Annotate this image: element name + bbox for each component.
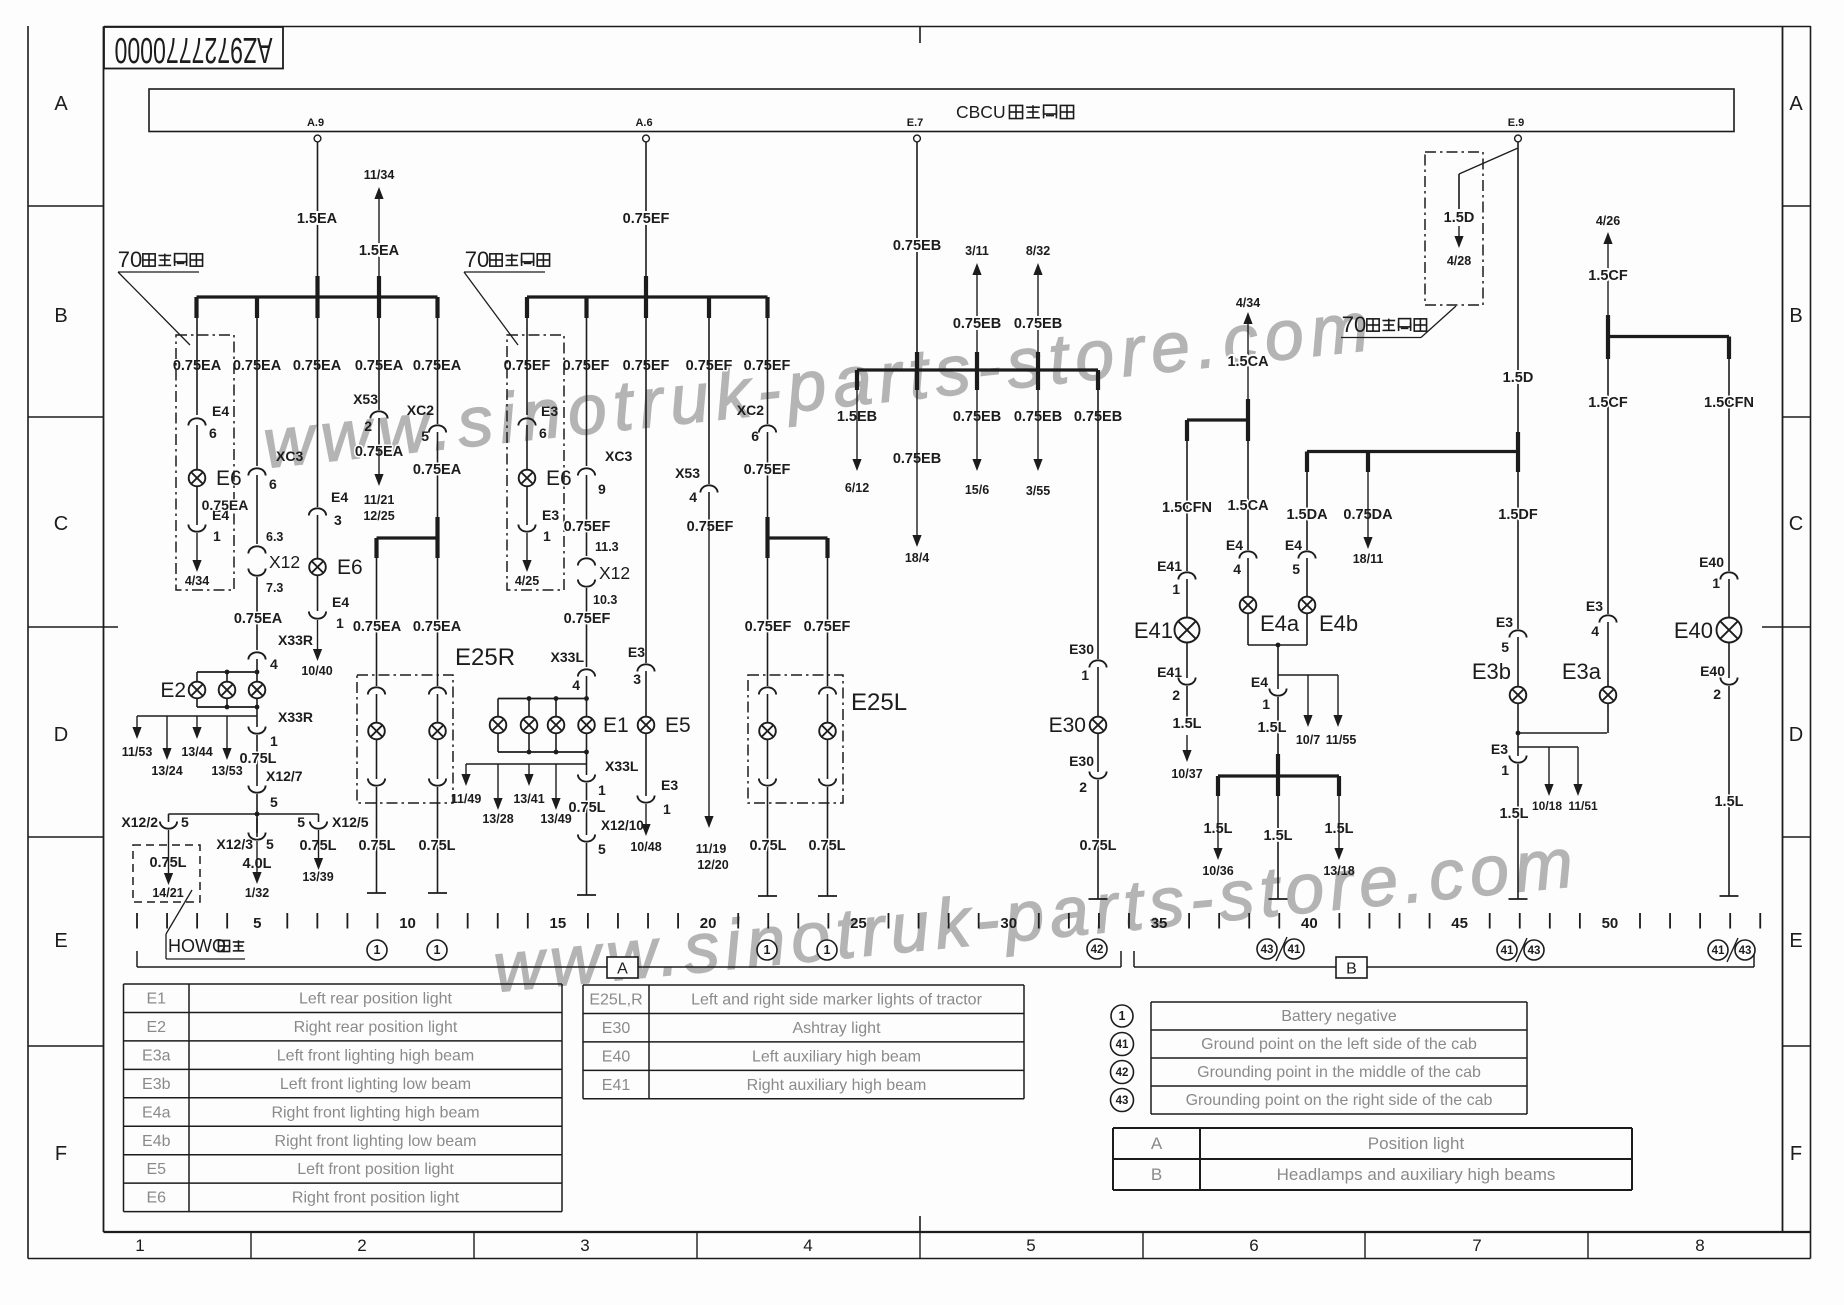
connector XC3 pin 6: [248, 468, 265, 475]
svg-text:1: 1: [1501, 762, 1509, 778]
svg-text:E30: E30: [602, 1020, 631, 1037]
svg-text:1: 1: [1081, 667, 1089, 683]
svg-text:1.5EA: 1.5EA: [359, 243, 400, 259]
svg-text:11/21: 11/21: [364, 493, 395, 507]
svg-text:E5: E5: [665, 714, 691, 737]
svg-text:A.6: A.6: [635, 117, 652, 129]
svg-text:0.75L: 0.75L: [1079, 838, 1116, 854]
connector X33R pin 4: [248, 652, 265, 659]
svg-text:5: 5: [421, 428, 429, 444]
wire 0.75EF from A.6: [645, 142, 647, 276]
svg-text:11/51: 11/51: [1568, 799, 1598, 813]
wire drop3 x317 E6 lamp: [317, 318, 319, 507]
wire 0.75EB from E.7: [916, 142, 918, 352]
svg-text:1.5D: 1.5D: [1503, 370, 1534, 386]
svg-text:1: 1: [663, 801, 671, 817]
svg-text:6: 6: [1249, 1236, 1258, 1255]
dashed box HOWO: [133, 845, 200, 902]
branch into mine-truck dashed box: [1459, 148, 1518, 174]
svg-text:5: 5: [266, 836, 274, 852]
svg-text:11/55: 11/55: [1326, 733, 1357, 747]
svg-text:X33R: X33R: [278, 632, 313, 648]
svg-text:1: 1: [336, 615, 344, 631]
bottom column strip: [250, 1232, 252, 1259]
svg-text:Grounding point in the middle: Grounding point in the middle of the cab: [1197, 1064, 1481, 1081]
connector E30 pin 2: [1089, 772, 1106, 779]
svg-text:6: 6: [539, 425, 547, 441]
svg-text:0.75EA: 0.75EA: [413, 619, 462, 635]
svg-text:E: E: [54, 930, 67, 952]
wire 1.5CA down (E4a): [1247, 441, 1249, 550]
svg-text:20: 20: [700, 915, 717, 932]
svg-text:E: E: [1789, 930, 1802, 952]
svg-text:45: 45: [1451, 915, 1468, 932]
drop 1.5CFN (E40): [1728, 359, 1730, 571]
svg-text:A: A: [617, 961, 628, 978]
drop 1.5DA: [1306, 472, 1308, 550]
connector E30 pin 1: [1089, 660, 1106, 667]
svg-text:C: C: [1789, 513, 1803, 535]
legend: ground symbols: [1151, 1002, 1527, 1114]
lamp group E2 (right rear position light): [197, 671, 257, 673]
connector X12/5 pin 5: [318, 814, 320, 822]
svg-text:5: 5: [1026, 1236, 1035, 1255]
svg-text:1: 1: [374, 943, 381, 957]
bus to E25R: [435, 517, 439, 558]
svg-text:Right front lighting high beam: Right front lighting high beam: [271, 1104, 479, 1121]
svg-text:E4b: E4b: [142, 1133, 171, 1150]
pin-number ruler: [136, 913, 138, 929]
svg-text:2: 2: [1172, 687, 1180, 703]
wire drop2 x586: [586, 318, 588, 466]
svg-text:13/39: 13/39: [302, 870, 333, 884]
svg-text:X12: X12: [599, 563, 630, 583]
svg-text:E4: E4: [212, 403, 229, 419]
HOWO axle label: [166, 890, 192, 934]
svg-text:E40: E40: [1699, 554, 1724, 570]
svg-text:50: 50: [1602, 915, 1619, 932]
svg-text:X12: X12: [269, 552, 300, 572]
svg-text:1.5CF: 1.5CF: [1588, 268, 1628, 284]
svg-text:10.3: 10.3: [593, 593, 617, 607]
svg-text:1: 1: [213, 528, 221, 544]
junction line X12 branches: [169, 813, 319, 815]
svg-text:10/7: 10/7: [1296, 733, 1320, 747]
svg-text:E3: E3: [1496, 614, 1513, 630]
svg-text:X53: X53: [353, 391, 378, 407]
svg-text:15: 15: [549, 915, 566, 932]
svg-text:42: 42: [1116, 1067, 1129, 1079]
svg-text:0.75EB: 0.75EB: [1014, 316, 1062, 332]
svg-text:1.5L: 1.5L: [1172, 716, 1201, 732]
lamp E40 (left auxiliary high beam): [1717, 618, 1742, 643]
branch arrows 10/7 11/55: [1278, 674, 1338, 676]
svg-text:4: 4: [270, 656, 278, 672]
svg-text:1: 1: [434, 943, 441, 957]
svg-text:B: B: [1789, 305, 1802, 327]
svg-text:E1: E1: [603, 714, 629, 737]
svg-text:Left and right side marker lig: Left and right side marker lights of tra…: [691, 992, 982, 1009]
svg-text:43: 43: [1116, 1095, 1129, 1107]
svg-text:X12/5: X12/5: [332, 814, 369, 830]
svg-text:15/6: 15/6: [965, 483, 989, 497]
grounds under E25L: [758, 895, 777, 897]
svg-text:1: 1: [824, 943, 831, 957]
junction to E3a: [1518, 732, 1607, 734]
bus EA: [197, 295, 438, 298]
svg-text:11/53: 11/53: [122, 745, 153, 759]
svg-text:A: A: [54, 93, 68, 115]
svg-text:2: 2: [364, 418, 372, 434]
title block AZ9727770000 (rotated 180): [104, 27, 283, 69]
svg-text:0.75EA: 0.75EA: [234, 611, 283, 627]
connector E4 pin 4: [1239, 551, 1256, 558]
middle wire to ground: [1277, 796, 1279, 899]
dash-dot box E6 left (E3 circuit): [507, 335, 564, 590]
svg-text:Ashtray light: Ashtray light: [792, 1020, 881, 1037]
svg-text:4/25: 4/25: [515, 574, 539, 588]
svg-text:F: F: [1790, 1143, 1802, 1165]
svg-text:8: 8: [1695, 1236, 1704, 1255]
svg-text:25: 25: [850, 915, 867, 932]
svg-text:7: 7: [1472, 1236, 1481, 1255]
svg-text:E.9: E.9: [1508, 117, 1525, 129]
svg-text:CBCU: CBCU: [956, 102, 1006, 122]
svg-text:E30: E30: [1069, 753, 1094, 769]
connector E4 pin 1: [1269, 689, 1286, 696]
svg-text:41: 41: [1288, 944, 1301, 956]
svg-text:0.75EF: 0.75EF: [623, 211, 670, 227]
svg-text:30: 30: [1000, 915, 1017, 932]
svg-text:0.75L: 0.75L: [749, 838, 786, 854]
svg-text:41: 41: [1501, 945, 1514, 957]
svg-text:0.75EB: 0.75EB: [953, 316, 1001, 332]
svg-text:6: 6: [751, 428, 759, 444]
lamp E4a (right high beam): [1240, 597, 1257, 614]
connector E3 pin 1: [1517, 733, 1519, 756]
svg-text:E4: E4: [1285, 537, 1302, 553]
svg-text:X12/7: X12/7: [266, 768, 303, 784]
bus D: [1516, 432, 1520, 472]
svg-text:4: 4: [1591, 623, 1599, 639]
svg-text:11/34: 11/34: [364, 168, 395, 182]
svg-text:1.5CA: 1.5CA: [1227, 498, 1269, 514]
branch line with arrows 11/53 13/24 13/44 13/53: [256, 707, 258, 727]
svg-text:1: 1: [270, 733, 278, 749]
svg-text:42: 42: [1091, 944, 1104, 956]
svg-text:18/4: 18/4: [905, 551, 929, 565]
svg-text:1: 1: [135, 1236, 144, 1255]
svg-text:E4b: E4b: [1319, 611, 1358, 636]
CBCU control unit box U1: [149, 89, 1734, 132]
svg-text:Right rear position light: Right rear position light: [294, 1019, 458, 1036]
svg-text:F: F: [55, 1143, 67, 1165]
ground reference bubbles: [367, 940, 387, 960]
svg-text:5: 5: [181, 814, 189, 830]
svg-text:0.75EF: 0.75EF: [687, 519, 734, 535]
svg-text:Ground point on the left side: Ground point on the left side of the cab: [1201, 1036, 1477, 1053]
svg-text:E3a: E3a: [142, 1047, 171, 1064]
svg-text:A: A: [1789, 93, 1803, 115]
svg-text:4/26: 4/26: [1596, 214, 1620, 228]
svg-text:1: 1: [1262, 696, 1270, 712]
bracket A: [136, 951, 138, 967]
svg-text:1.5CA: 1.5CA: [1227, 354, 1269, 370]
bus CA: [1246, 399, 1250, 441]
wire 1.5DF: [1517, 472, 1519, 629]
connector X33L pin 1: [578, 775, 595, 782]
svg-text:1.5L: 1.5L: [1263, 828, 1292, 844]
connector X12/2 pin 5: [168, 814, 170, 822]
svg-text:1.5D: 1.5D: [1444, 210, 1475, 226]
svg-text:B: B: [54, 305, 67, 327]
svg-text:E41: E41: [1157, 664, 1182, 680]
svg-text:D: D: [54, 724, 68, 746]
svg-text:E6: E6: [146, 1190, 166, 1207]
svg-text:E4: E4: [1251, 674, 1268, 690]
svg-text:E41: E41: [1134, 618, 1173, 643]
svg-text:X12/2: X12/2: [121, 814, 158, 830]
svg-text:5: 5: [253, 915, 261, 932]
ground under E30: [1089, 898, 1108, 900]
svg-text:X53: X53: [675, 465, 700, 481]
svg-text:70: 70: [118, 247, 142, 272]
svg-text:13/18: 13/18: [1323, 864, 1354, 878]
svg-text:6: 6: [269, 476, 277, 492]
grounds under E25R: [367, 892, 386, 894]
svg-text:E41: E41: [602, 1077, 631, 1094]
svg-text:X12/3: X12/3: [216, 836, 253, 852]
svg-text:XC3: XC3: [276, 448, 303, 464]
connector E3 pin 1: [526, 486, 528, 525]
svg-text:1.5DA: 1.5DA: [1286, 507, 1328, 523]
svg-text:12/25: 12/25: [363, 509, 394, 523]
svg-text:E.7: E.7: [907, 117, 924, 129]
svg-text:14/21: 14/21: [152, 886, 183, 900]
svg-text:Right front lighting low beam: Right front lighting low beam: [275, 1133, 477, 1150]
svg-text:B: B: [1346, 961, 1357, 978]
connector E4 pin 1: [196, 486, 198, 525]
wire drop5 x767 XC2/6: [767, 318, 769, 424]
svg-text:Left rear position light: Left rear position light: [299, 991, 453, 1008]
svg-text:70: 70: [1342, 312, 1366, 337]
svg-text:E25R: E25R: [455, 644, 515, 671]
svg-text:3/11: 3/11: [965, 244, 989, 258]
svg-text:E4: E4: [1226, 537, 1243, 553]
sheet outer border: [27, 26, 29, 1259]
svg-text:5: 5: [1501, 639, 1509, 655]
svg-text:43: 43: [1739, 945, 1752, 957]
connector E3 pin 6: [518, 418, 535, 425]
connector X12/3 pin 5: [256, 818, 258, 833]
svg-text:1: 1: [598, 782, 606, 798]
svg-text:6: 6: [209, 425, 217, 441]
svg-text:0.75EF: 0.75EF: [564, 611, 611, 627]
svg-text:7.3: 7.3: [266, 581, 283, 595]
lamp E41 (right auxiliary high beam): [1175, 618, 1200, 643]
svg-text:E3: E3: [1491, 741, 1508, 757]
arrow 4/34: [196, 533, 198, 562]
svg-text:E4a: E4a: [142, 1104, 171, 1121]
lamp E6 (left): [526, 425, 528, 470]
svg-text:4: 4: [572, 677, 580, 693]
lamp group E1 (left rear position light): [498, 698, 587, 700]
inner drawing frame: [103, 27, 105, 1233]
svg-text:E40: E40: [1700, 663, 1725, 679]
branch arrows 10/18 11/51: [1518, 746, 1578, 748]
svg-text:E4: E4: [331, 489, 348, 505]
svg-text:3/55: 3/55: [1026, 484, 1050, 498]
svg-text:Right auxiliary high beam: Right auxiliary high beam: [747, 1077, 927, 1094]
drop 1.5CFN (E41): [1186, 441, 1188, 571]
wire drop4 x709 X53/4: [708, 318, 710, 484]
svg-text:1.5EA: 1.5EA: [297, 211, 338, 227]
svg-text:10/18: 10/18: [1532, 799, 1562, 813]
svg-text:E40: E40: [1674, 618, 1713, 643]
bus EB: [857, 368, 1098, 371]
svg-text:E3: E3: [628, 644, 645, 660]
svg-text:E3: E3: [542, 507, 559, 523]
svg-text:4: 4: [803, 1236, 812, 1255]
svg-text:X33L: X33L: [551, 649, 585, 665]
dash-dot box around E6 right (E4 circuit): [176, 335, 234, 590]
svg-text:2: 2: [357, 1236, 366, 1255]
svg-text:1: 1: [543, 528, 551, 544]
lamp E4b wire from 1.5DA: [1298, 551, 1315, 558]
svg-text:4: 4: [689, 489, 697, 505]
svg-text:Battery negative: Battery negative: [1281, 1008, 1397, 1025]
svg-text:0.75EF: 0.75EF: [744, 462, 791, 478]
svg-text:70: 70: [465, 247, 489, 272]
svg-text:E25L,R: E25L,R: [589, 992, 642, 1009]
svg-text:A.9: A.9: [307, 117, 324, 129]
svg-text:5: 5: [1292, 561, 1300, 577]
connector E40 pin 1: [1720, 572, 1737, 579]
svg-text:11/19: 11/19: [696, 842, 727, 856]
svg-text:1.5CF: 1.5CF: [1588, 395, 1628, 411]
svg-text:8/32: 8/32: [1026, 244, 1050, 258]
svg-text:18/11: 18/11: [1353, 552, 1384, 566]
connector E3 pin 4: [1599, 615, 1616, 622]
svg-text:43: 43: [1261, 944, 1274, 956]
svg-text:10/40: 10/40: [301, 664, 332, 678]
svg-text:E40: E40: [602, 1048, 631, 1065]
svg-text:2: 2: [1713, 686, 1721, 702]
wire drop5 x437 XC2/5: [437, 318, 439, 424]
bus to E25L: [765, 517, 769, 558]
centre marks: [919, 27, 921, 44]
svg-text:E25L: E25L: [851, 689, 907, 716]
svg-text:E3a: E3a: [1562, 659, 1602, 684]
lamp E30 (ashtray light): [1090, 717, 1107, 734]
branch arrows 11/49 13/28 13/41 13/49: [586, 752, 588, 775]
svg-text:X33L: X33L: [605, 758, 639, 774]
svg-text:E2: E2: [160, 679, 186, 702]
connector X12/7 pin 5: [248, 786, 265, 793]
svg-text:11.3: 11.3: [595, 540, 619, 554]
svg-text:13/24: 13/24: [151, 764, 182, 778]
svg-text:4: 4: [1233, 561, 1241, 577]
svg-text:1.5L: 1.5L: [1499, 806, 1528, 822]
svg-text:3: 3: [633, 671, 641, 687]
side marker E25L box: [748, 675, 843, 803]
svg-text:13/44: 13/44: [181, 745, 212, 759]
svg-text:13/28: 13/28: [482, 812, 513, 826]
svg-text:5: 5: [598, 841, 606, 857]
svg-text:12/20: 12/20: [697, 858, 728, 872]
svg-text:11/49: 11/49: [451, 792, 482, 806]
svg-text:E3: E3: [541, 403, 558, 419]
svg-text:43: 43: [1528, 945, 1541, 957]
zone row separators and labels: [28, 205, 104, 207]
junction E4 low-beam returns: [1248, 644, 1307, 646]
svg-text:41: 41: [1116, 1039, 1129, 1051]
svg-text:41: 41: [1712, 945, 1725, 957]
svg-text:Left auxiliary high beam: Left auxiliary high beam: [752, 1048, 921, 1065]
connector E41 pin 1: [1178, 572, 1195, 579]
svg-text:E6: E6: [546, 467, 572, 490]
svg-text:1.5CFN: 1.5CFN: [1162, 500, 1212, 516]
svg-text:XC2: XC2: [407, 402, 434, 418]
wire 1.5EA from A.9: [317, 142, 319, 276]
svg-text:5: 5: [297, 814, 305, 830]
svg-text:E3: E3: [661, 777, 678, 793]
svg-text:35: 35: [1151, 915, 1168, 932]
svg-text:XC3: XC3: [605, 448, 632, 464]
connector E3 pin 5: [1509, 630, 1526, 637]
svg-text:1: 1: [764, 943, 771, 957]
svg-text:2: 2: [1079, 779, 1087, 795]
wire drop2 x257 connectors: [256, 318, 258, 466]
svg-text:E3b: E3b: [1472, 659, 1511, 684]
svg-text:X33R: X33R: [278, 709, 313, 725]
connector X33L pin 4: [578, 669, 595, 676]
svg-text:4/28: 4/28: [1447, 254, 1471, 268]
svg-text:E41: E41: [1157, 558, 1182, 574]
svg-text:4/34: 4/34: [1236, 296, 1260, 310]
ground under X12/10: [577, 894, 596, 896]
wire drop4 x379 X53/2: [370, 411, 387, 418]
svg-text:1/32: 1/32: [245, 886, 269, 900]
side marker E25R box: [357, 675, 453, 803]
svg-text:0.75L: 0.75L: [239, 751, 276, 767]
svg-text:1: 1: [1119, 1009, 1126, 1023]
connector X33R pin 1: [248, 727, 265, 734]
wire 1.5D from E.9: [1517, 142, 1519, 432]
table: lamp designations left: [124, 984, 563, 1212]
svg-text:1: 1: [1172, 581, 1180, 597]
svg-text:3: 3: [580, 1236, 589, 1255]
connector E40 pin 2: [1720, 678, 1737, 685]
svg-text:D: D: [1789, 724, 1803, 746]
lamp E6 (in box): [196, 425, 198, 470]
svg-text:Position light: Position light: [1368, 1134, 1465, 1153]
svg-text:0.75L: 0.75L: [418, 838, 455, 854]
svg-text:0.75EA: 0.75EA: [353, 619, 402, 635]
svg-text:0.75L: 0.75L: [358, 838, 395, 854]
svg-text:10/37: 10/37: [1171, 767, 1202, 781]
svg-text:10/48: 10/48: [630, 840, 661, 854]
svg-text:13/53: 13/53: [211, 764, 242, 778]
svg-text:Left front lighting low beam: Left front lighting low beam: [280, 1076, 471, 1093]
svg-text:Grounding point on the right s: Grounding point on the right side of the…: [1186, 1092, 1493, 1109]
bus 1.5L: [1276, 754, 1280, 796]
svg-text:0.75L: 0.75L: [568, 800, 605, 816]
svg-text:E3b: E3b: [142, 1076, 171, 1093]
svg-text:6/12: 6/12: [845, 481, 869, 495]
svg-text:E2: E2: [146, 1019, 166, 1036]
svg-text:A: A: [1151, 1134, 1163, 1153]
